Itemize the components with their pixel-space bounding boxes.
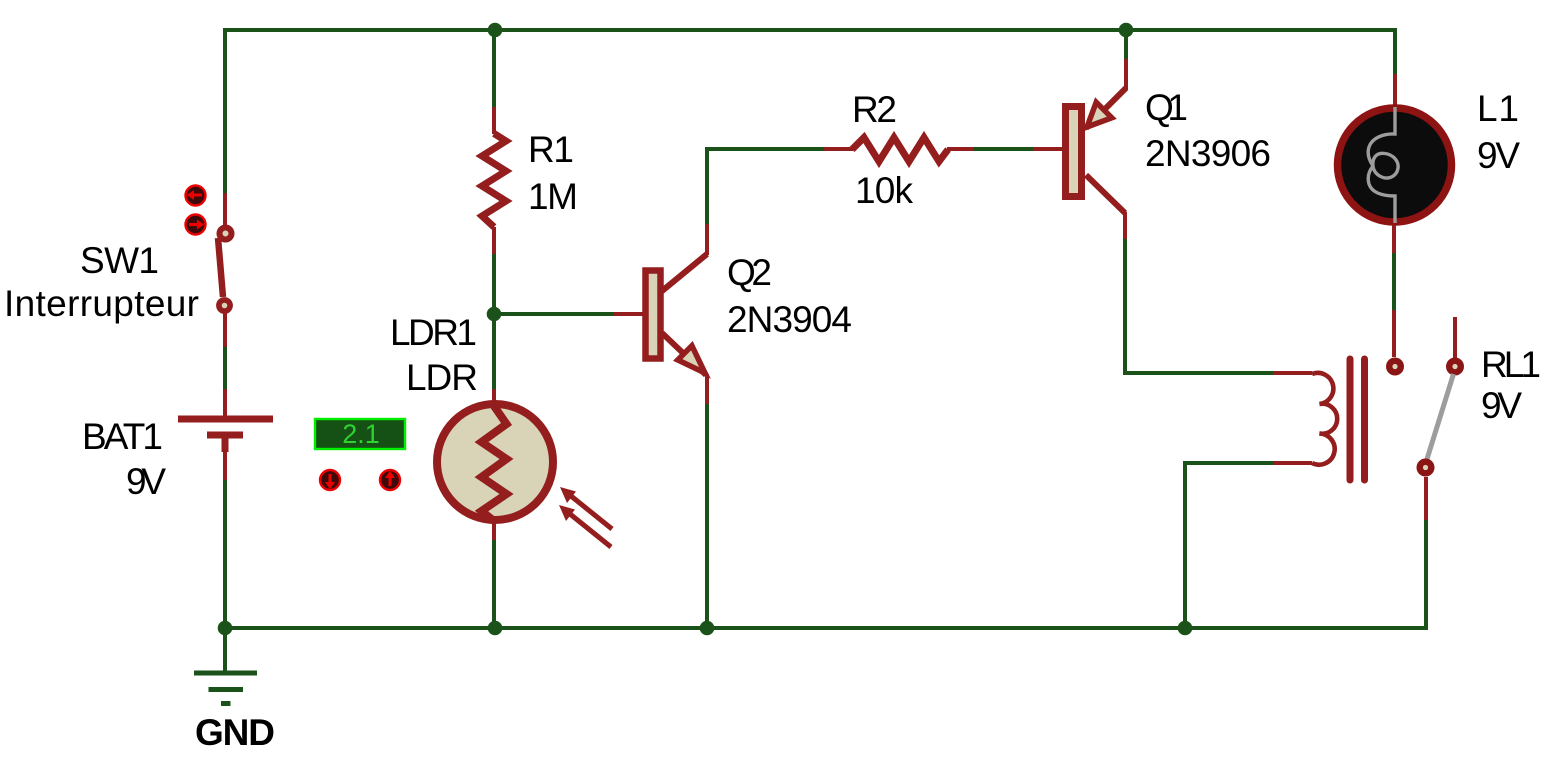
SW1 actuator button down xyxy=(186,215,206,235)
svg-text:9V: 9V xyxy=(126,461,166,502)
wire Q1 emitter top red xyxy=(1124,59,1128,90)
wire relay pole green xyxy=(1424,520,1428,630)
svg-text:9V: 9V xyxy=(1481,385,1522,426)
wire R1 to node xyxy=(492,254,496,390)
LDR1 button down xyxy=(320,470,340,490)
node base junction xyxy=(487,307,502,322)
svg-text:9V: 9V xyxy=(1477,135,1520,176)
node top R1 xyxy=(488,23,503,38)
node bottom Q2 xyxy=(700,621,715,636)
wire SW1 bottom stub xyxy=(223,313,227,347)
wire R1 bottom stub xyxy=(492,227,496,255)
battery BAT1 xyxy=(178,416,273,482)
wire Q1 collector to relay coil xyxy=(1125,239,1274,373)
wire between SW1 and BAT1 xyxy=(223,347,227,390)
resistor R1 xyxy=(482,134,506,228)
ground xyxy=(194,673,257,704)
wire top rail xyxy=(225,28,1395,32)
wire Q1 emitter top green xyxy=(1124,28,1128,60)
wire left vertical top xyxy=(223,28,227,193)
wire lamp top red xyxy=(1393,74,1397,105)
wire lamp bottom green xyxy=(1392,253,1396,311)
wire Q2 collector red up xyxy=(705,224,709,255)
wire relay NC stub xyxy=(1453,317,1457,358)
svg-text:1M: 1M xyxy=(528,176,578,217)
wire base horizontal red xyxy=(614,312,644,316)
node bottom LDR xyxy=(488,621,503,636)
svg-text:R2: R2 xyxy=(852,89,897,130)
relay contact terminal bottom xyxy=(1417,459,1435,477)
transistor Q1 xyxy=(1066,88,1127,213)
wire R1 column top xyxy=(492,28,496,108)
lamp L1 xyxy=(1338,107,1452,223)
svg-text:GND: GND xyxy=(195,712,275,753)
display LDR1 value xyxy=(315,419,405,449)
wire lamp top green xyxy=(1393,28,1397,75)
node bottom left xyxy=(218,621,233,636)
wire Q1 collector red down xyxy=(1123,212,1127,240)
svg-text:LDR: LDR xyxy=(406,357,478,398)
relay RL1 coil xyxy=(1312,373,1337,465)
LDR1 button up xyxy=(380,470,400,490)
wire R2 left red lead xyxy=(824,147,853,151)
wire bottom rail xyxy=(225,626,1426,630)
wire Q2 collector green up and right xyxy=(707,149,825,224)
wire LDR top stub xyxy=(492,389,496,412)
relay RL1 core xyxy=(1350,359,1365,480)
wire lamp bottom red xyxy=(1392,225,1396,254)
switch SW1 xyxy=(218,228,232,312)
transistor Q2 xyxy=(646,254,708,375)
wire GND stub xyxy=(223,628,227,673)
SW1 actuator button up xyxy=(186,186,206,206)
node bottom relay xyxy=(1178,621,1193,636)
wire R2 right red lead xyxy=(947,147,975,151)
wire LDR bottom stub xyxy=(492,520,496,541)
svg-text:Interrupteur: Interrupteur xyxy=(4,283,199,324)
photoresistor LDR1 xyxy=(437,404,612,547)
wire SW1 top stub xyxy=(223,193,227,226)
svg-text:10k: 10k xyxy=(855,170,914,211)
svg-text:L1: L1 xyxy=(1477,88,1519,129)
resistor R2 xyxy=(852,138,948,162)
wire BAT1 top stub xyxy=(223,389,227,416)
wire LDR to bottom rail xyxy=(492,540,496,628)
relay contact terminal left xyxy=(1386,358,1404,376)
wire lamp to relay contact red xyxy=(1392,310,1396,357)
svg-text:2.1: 2.1 xyxy=(342,419,380,449)
wire coil top red lead xyxy=(1273,371,1312,375)
svg-text:2N3904: 2N3904 xyxy=(727,299,852,340)
node top Q1 xyxy=(1119,23,1134,38)
wire base horizontal green xyxy=(494,312,614,316)
wire R2 to Q1 green xyxy=(974,147,1034,151)
wire R1 top stub xyxy=(492,107,496,134)
wire Q2 emitter red down xyxy=(705,374,709,405)
wire below battery xyxy=(223,480,227,628)
wire Q2 emitter to bottom rail xyxy=(705,404,709,628)
svg-text:LDR1: LDR1 xyxy=(390,312,477,353)
wire coil bottom red lead xyxy=(1273,461,1312,465)
wire Q1 base red xyxy=(1033,147,1063,151)
relay contact terminal right xyxy=(1446,358,1464,376)
svg-text:R1: R1 xyxy=(528,129,574,170)
svg-text:RL1: RL1 xyxy=(1481,344,1541,385)
svg-text:SW1: SW1 xyxy=(80,240,159,281)
svg-text:2N3906: 2N3906 xyxy=(1145,133,1271,174)
svg-text:BAT1: BAT1 xyxy=(82,416,163,457)
wire coil bottom green to rail xyxy=(1185,463,1274,628)
svg-text:Q2: Q2 xyxy=(727,252,772,293)
svg-text:Q1: Q1 xyxy=(1145,87,1188,128)
wire relay pole red xyxy=(1424,477,1428,521)
relay blade xyxy=(1427,374,1454,459)
